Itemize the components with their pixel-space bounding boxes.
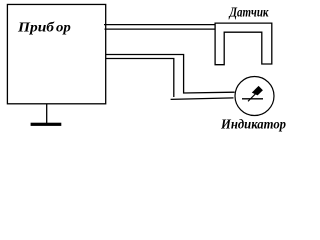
svg-text:Индикатор: Индикатор bbox=[220, 118, 286, 133]
svg-text:Датчик: Датчик bbox=[228, 6, 269, 21]
svg-text:Прибор: Прибор bbox=[17, 21, 71, 36]
